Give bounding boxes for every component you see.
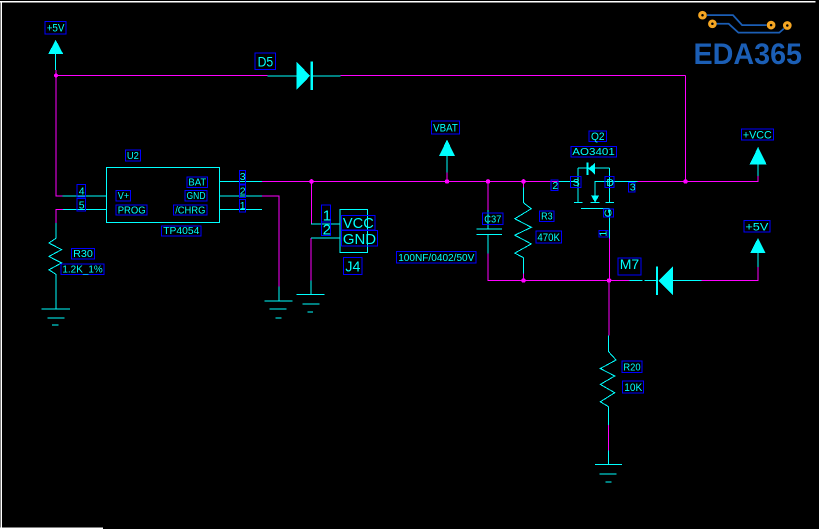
wire U2 pin 2 GND to ground (262, 196, 279, 287)
Q2 pin number 2 (551, 180, 558, 192)
U2 pin 2 (220, 195, 263, 197)
svg-text:4: 4 (79, 186, 85, 198)
wire D5 cathode to right vertical (341, 75, 686, 77)
power flag +5V top-left (48, 40, 63, 70)
ground under U2 pin 2 wire (265, 286, 293, 318)
U2 pin 3 (220, 180, 263, 182)
wire Q2 drain to +VCC corner (638, 176, 759, 182)
wire BAT bus from U2 pin 3 to Q2 source (262, 181, 559, 183)
wire +5V top net horizontal to D5 anode (56, 75, 268, 77)
label R30 (72, 248, 95, 260)
svg-text:D: D (606, 177, 614, 189)
capacitor C37 (477, 210, 503, 254)
U2 pin 5 (63, 209, 107, 211)
svg-text:100NF/0402/50V: 100NF/0402/50V (398, 252, 474, 264)
wire VBAT stem to bus (446, 172, 448, 182)
svg-text:J4: J4 (345, 259, 360, 276)
label C37 (483, 213, 503, 226)
label AO3401 (571, 146, 617, 158)
svg-text:M7: M7 (620, 256, 640, 272)
label 470K (536, 231, 562, 244)
resistor R3 (515, 188, 532, 274)
svg-text:C37: C37 (484, 213, 501, 225)
J4 pin 2 (311, 237, 340, 239)
wire +5V down to U2 pin 4 (56, 70, 63, 196)
Q2 drain vertical (609, 168, 611, 203)
diode D5 (268, 62, 341, 90)
label Q2 (589, 131, 606, 143)
svg-text:EDA365: EDA365 (694, 38, 803, 71)
label 100NF/0402/50V (397, 251, 477, 264)
pin number 5 (77, 199, 85, 212)
J4 pin number 1 (321, 205, 331, 225)
pin number 4 (77, 184, 85, 197)
svg-text:1: 1 (240, 200, 246, 212)
svg-text:2: 2 (323, 222, 331, 239)
diode M7 (630, 266, 702, 295)
U2 pin 4 (63, 195, 107, 197)
pin name PROG (116, 204, 147, 216)
wire vertical drop from top net to D node (685, 76, 687, 182)
svg-text:Q2: Q2 (591, 131, 605, 143)
pin name GND (185, 190, 207, 202)
op-amp-ish IC U2 body (107, 168, 220, 223)
pin number 2 (239, 185, 245, 198)
svg-text:2: 2 (552, 180, 558, 192)
transistor Q2 AO3401 symbol (559, 163, 638, 239)
svg-text:470K: 470K (537, 232, 560, 244)
svg-text:10K: 10K (624, 382, 643, 394)
svg-text:+5V: +5V (745, 221, 769, 233)
EDA365 logo (694, 12, 803, 71)
Q2 pin number 3 (629, 182, 636, 194)
J4 pin name VCC (342, 215, 376, 232)
J4 pin name GND (342, 231, 378, 248)
U2 pin 1 (220, 209, 263, 211)
pin name V+ (116, 190, 130, 202)
svg-text:1.2K_1%: 1.2K_1% (62, 264, 102, 276)
wire Q2 gate down to bottom net (609, 239, 611, 281)
svg-text:1: 1 (597, 231, 609, 237)
wire R30 bottom to ground (55, 288, 57, 294)
power flag +VCC (750, 147, 767, 176)
J4 pin 1 (311, 223, 340, 225)
svg-text:R3: R3 (541, 210, 553, 222)
wire J4 pin 2 to ground (310, 238, 312, 280)
wire U2 pin 5 to R30 top (56, 210, 63, 223)
power flag +5V right (750, 238, 765, 267)
svg-text:3: 3 (630, 182, 636, 194)
svg-text:VBAT: VBAT (433, 122, 458, 134)
wire bus to C37 top (487, 182, 489, 211)
wire bus to R3 top (523, 182, 525, 189)
Q2 pin name S (570, 177, 580, 190)
svg-text:R20: R20 (623, 362, 640, 374)
label M7 (618, 256, 641, 275)
Q2 pin number 1 rotated (597, 230, 609, 237)
wire R3 bottom magenta segment (523, 273, 525, 281)
resistor R20 (600, 336, 616, 425)
pin number 3 (239, 171, 245, 184)
label TP4054 (162, 225, 201, 237)
svg-text:TP4054: TP4054 (163, 225, 199, 237)
wire R20 bottom to ground (608, 425, 610, 451)
label +5V top-left (45, 21, 66, 34)
J4 pin number 2 (321, 222, 331, 239)
Q2 source pin 2 (559, 181, 578, 183)
label VBAT (431, 121, 459, 134)
wire bottom net to R20 top (608, 281, 610, 336)
pin number 1 (239, 200, 245, 213)
label 1.2K_1% (61, 264, 104, 276)
svg-text:BAT: BAT (188, 177, 206, 189)
ground under R20 (595, 450, 622, 482)
label R3 (540, 210, 555, 222)
wire bus to J4 pin 1 (311, 182, 313, 225)
svg-text:5: 5 (79, 199, 85, 211)
svg-text:/CHRG: /CHRG (175, 204, 205, 216)
label +5V right (744, 221, 770, 234)
Q2 channel stubs (574, 202, 583, 204)
pin name BAT (187, 177, 208, 189)
svg-text:V+: V+ (118, 190, 129, 202)
svg-text:U2: U2 (127, 150, 139, 162)
wire M7 anode to +5V corner (702, 267, 759, 281)
ground under R30 (42, 309, 70, 325)
label R20 (622, 361, 642, 373)
svg-text:VCC: VCC (343, 215, 374, 232)
Q2 substrate arrow (595, 182, 609, 197)
svg-text:AO3401: AO3401 (572, 146, 615, 158)
resistor R30 (49, 223, 62, 309)
label 10K (623, 381, 644, 394)
svg-text:3: 3 (240, 171, 246, 183)
Q2 pin name D (605, 177, 615, 190)
label +VCC (741, 129, 773, 142)
label J4 (344, 258, 362, 276)
svg-text:R30: R30 (73, 248, 93, 260)
pin name /CHRG (174, 204, 207, 216)
label D5 (255, 53, 275, 70)
svg-text:GND: GND (187, 190, 206, 202)
svg-text:PROG: PROG (118, 204, 146, 216)
svg-text:2: 2 (240, 186, 246, 198)
label U2 (125, 150, 140, 162)
connector J4 body (340, 210, 368, 253)
svg-text:+VCC: +VCC (743, 129, 772, 141)
svg-text:G: G (603, 209, 615, 217)
svg-text:GND: GND (343, 231, 376, 248)
svg-text:+5V: +5V (47, 23, 65, 35)
Q2 source vertical (577, 168, 579, 203)
svg-text:S: S (573, 177, 580, 189)
power flag VBAT (439, 140, 455, 173)
Q2 pin name G rotated (603, 209, 615, 217)
Q2 gate pin 1 (609, 208, 611, 238)
svg-text:D5: D5 (258, 54, 274, 70)
Q2 body diode (587, 163, 589, 175)
Q2 drain pin 3 (610, 181, 638, 183)
wire C37 bottom to bottom net (488, 253, 630, 280)
ground under J4 pin 2 (297, 281, 325, 312)
Q2 gate bar (581, 207, 610, 209)
